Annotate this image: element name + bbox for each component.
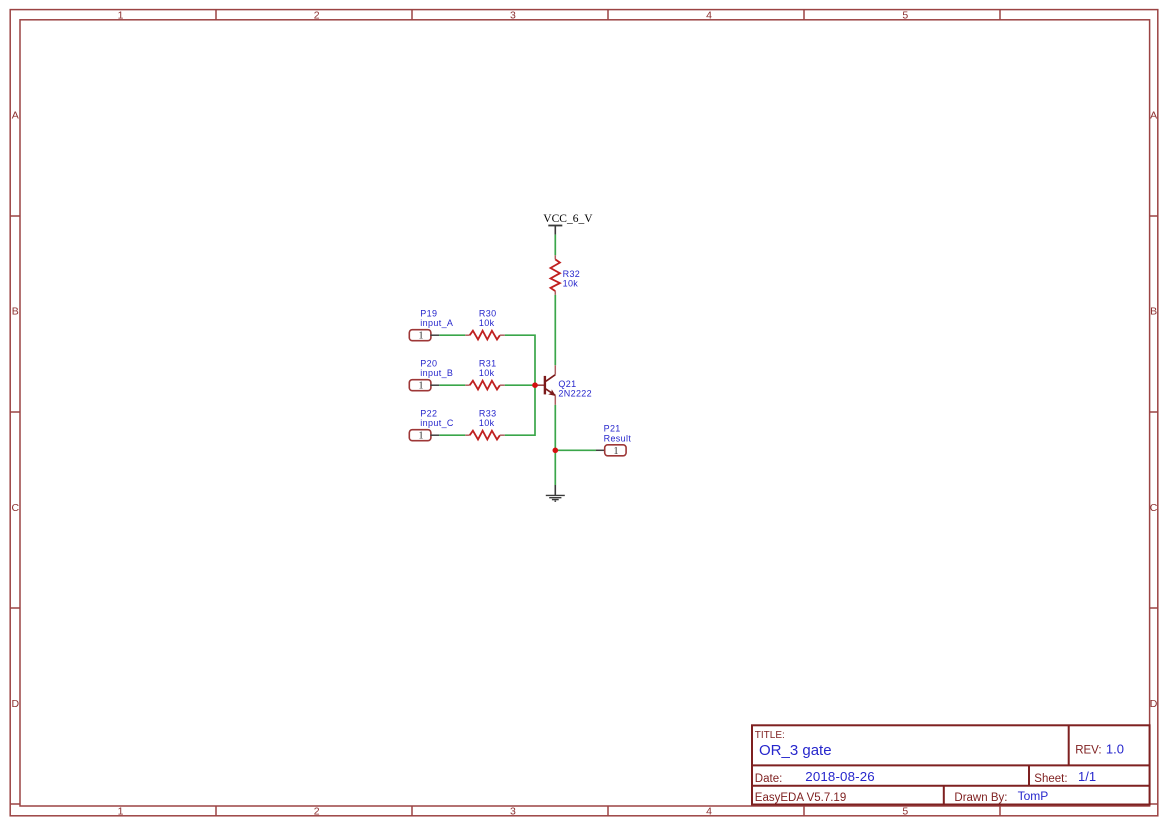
svg-text:1: 1 (418, 381, 423, 392)
pin P19 (409, 330, 439, 341)
wire emitter node to ground (554, 450, 556, 485)
wire R31 to base node (505, 384, 535, 386)
svg-text:R33: R33 (479, 408, 497, 418)
svg-text:B: B (12, 306, 19, 318)
svg-text:1/1: 1/1 (1078, 769, 1096, 784)
wire R33 to node (corner up) (505, 385, 535, 435)
pin P21 (596, 445, 626, 456)
wire P20 to R31 (439, 384, 465, 386)
svg-text:1.0: 1.0 (1106, 741, 1124, 756)
pin P22 (409, 430, 439, 441)
svg-text:1: 1 (118, 9, 124, 21)
svg-text:5: 5 (902, 805, 908, 817)
svg-text:Result: Result (604, 433, 632, 443)
svg-text:4: 4 (706, 9, 712, 21)
svg-text:input_A: input_A (420, 318, 453, 328)
svg-text:5: 5 (902, 9, 908, 21)
resistor R30 (465, 331, 505, 340)
svg-text:EasyEDA V5.7.19: EasyEDA V5.7.19 (755, 792, 846, 804)
svg-text:input_B: input_B (420, 368, 453, 378)
svg-text:A: A (1150, 109, 1157, 121)
svg-text:10k: 10k (479, 418, 495, 428)
svg-text:Q21: Q21 (558, 379, 576, 389)
svg-text:Drawn By:: Drawn By: (954, 792, 1007, 804)
svg-text:10k: 10k (479, 318, 495, 328)
junction at base node (532, 382, 538, 388)
svg-text:D: D (1150, 698, 1158, 710)
svg-text:TomP: TomP (1018, 789, 1049, 803)
svg-text:2: 2 (314, 805, 320, 817)
wire emitter node to P21 (555, 449, 596, 451)
svg-text:4: 4 (706, 805, 712, 817)
svg-text:Sheet:: Sheet: (1034, 773, 1067, 785)
svg-text:B: B (1150, 306, 1157, 318)
svg-text:TITLE:: TITLE: (755, 730, 785, 741)
wire VCC to R32 (554, 235, 556, 256)
wire emitter down (554, 405, 556, 450)
svg-text:A: A (12, 109, 19, 121)
resistor R31 (465, 381, 505, 390)
svg-text:input_C: input_C (420, 418, 454, 428)
svg-text:10k: 10k (479, 368, 495, 378)
svg-text:10k: 10k (563, 279, 579, 289)
svg-text:1: 1 (418, 431, 423, 442)
svg-text:P20: P20 (420, 358, 437, 368)
svg-text:VCC_6_V: VCC_6_V (543, 213, 593, 225)
svg-text:2N2222: 2N2222 (558, 388, 592, 398)
svg-text:R31: R31 (479, 358, 497, 368)
svg-text:3: 3 (510, 9, 516, 21)
wire P22 to R33 (439, 434, 465, 436)
svg-text:D: D (12, 698, 20, 710)
junction at emitter node (553, 448, 559, 454)
resistor R32 (551, 255, 560, 295)
svg-text:R30: R30 (479, 308, 497, 318)
svg-text:C: C (1150, 502, 1158, 514)
ground (546, 485, 565, 501)
svg-text:3: 3 (510, 805, 516, 817)
wire P19 to R30 (439, 334, 465, 336)
svg-text:P22: P22 (420, 408, 437, 418)
svg-text:REV:: REV: (1075, 744, 1101, 756)
svg-text:1: 1 (118, 805, 124, 817)
net VCC_6_V power symbol (543, 213, 593, 234)
svg-text:P21: P21 (604, 423, 621, 433)
svg-text:C: C (12, 502, 20, 514)
resistor R33 (465, 431, 505, 440)
svg-text:P19: P19 (420, 308, 437, 318)
svg-text:1: 1 (418, 331, 423, 342)
svg-text:OR_3 gate: OR_3 gate (759, 742, 832, 759)
svg-text:2: 2 (314, 9, 320, 21)
transistor Q21 (535, 365, 556, 405)
wire R32 to Q21 collector (554, 295, 556, 365)
svg-text:Date:: Date: (755, 773, 783, 785)
svg-text:1: 1 (613, 446, 618, 457)
svg-text:2018-08-26: 2018-08-26 (805, 769, 875, 784)
wire R30 to node (corner down) (505, 335, 535, 385)
pin P20 (409, 380, 439, 391)
